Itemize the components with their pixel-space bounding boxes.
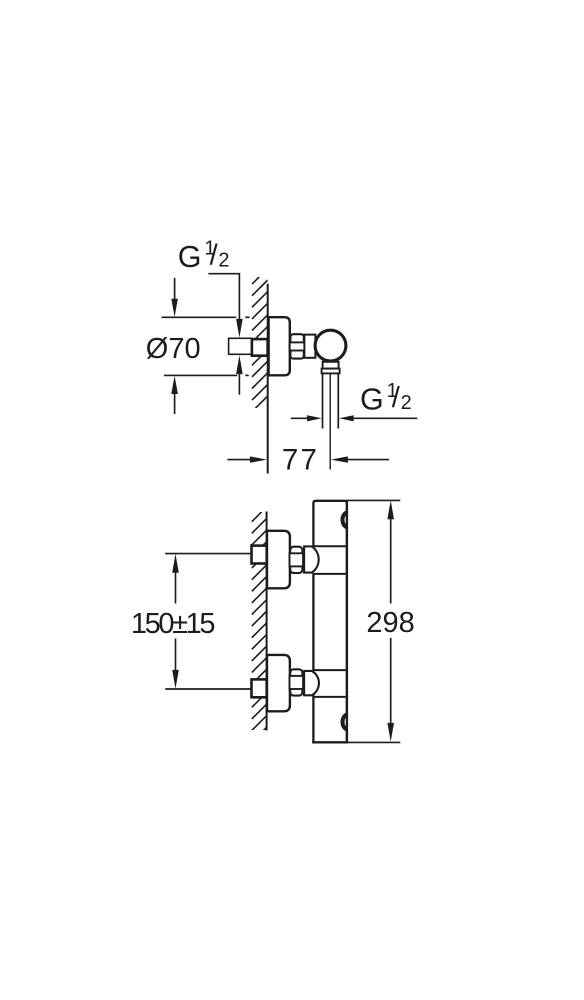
escutcheon bottom (front): [267, 655, 290, 711]
escutcheon (top view): [269, 317, 290, 375]
wall face line (front view): [266, 512, 268, 731]
svg-text:G: G: [360, 383, 384, 417]
supply pipe stub behind wall: [229, 338, 252, 354]
dome bottom (front): [304, 671, 319, 695]
extension line Ø70 bottom: [164, 374, 237, 376]
svg-text:/: /: [392, 382, 401, 414]
collar ring upper: [323, 362, 339, 369]
wall hatch (front view): [252, 506, 268, 742]
connector body (top view): [304, 335, 315, 358]
svg-text:2: 2: [218, 250, 229, 272]
hex nut top (front): [290, 547, 302, 573]
hex nut (top view): [290, 334, 303, 358]
boss line bottom upper: [313, 669, 345, 671]
label G 1/2 (pipe): [360, 380, 412, 416]
hex nut bottom (front): [290, 669, 302, 695]
handle bottom: [343, 714, 349, 729]
thermostat body: [313, 501, 347, 743]
reference line 150 bottom: [165, 688, 251, 690]
dimension 77: [227, 459, 251, 461]
shower pipe: [322, 374, 324, 429]
collar ring lower: [322, 369, 340, 374]
svg-text:298: 298: [366, 607, 414, 639]
body bottom edge: [312, 741, 348, 743]
label G 1/2 (top): [178, 238, 230, 274]
wall face line (top view): [267, 284, 269, 474]
boss line bottom lower: [313, 696, 345, 698]
arrow Ø70 top: [174, 278, 176, 300]
union nut bottom (front): [252, 679, 267, 697]
body right edge: [346, 500, 348, 742]
handle top: [343, 512, 349, 527]
arrow Ø70 bottom: [171, 376, 178, 394]
escutcheon top (front): [267, 531, 290, 589]
dimension G 1/2 pipe: [291, 417, 309, 419]
svg-text:77: 77: [282, 443, 319, 476]
extension line Ø70 top: [162, 316, 237, 318]
svg-text:2: 2: [401, 392, 412, 414]
arrow G 1/2 lower: [236, 355, 243, 374]
union nut top (front): [252, 546, 267, 564]
dome top (front): [304, 546, 319, 572]
wall hatch (top view): [252, 268, 268, 411]
boss line top upper: [313, 545, 345, 547]
svg-text:G: G: [178, 240, 202, 274]
union nut behind wall (top view): [252, 339, 268, 356]
extension line 298 top: [346, 499, 400, 501]
reference line 150 top: [165, 553, 251, 555]
svg-text:/: /: [210, 240, 219, 272]
svg-text:Ø70: Ø70: [146, 333, 201, 365]
dimension 150±15: [172, 554, 179, 573]
outlet elbow circle: [315, 330, 346, 361]
svg-text:150±15: 150±15: [131, 608, 214, 640]
boss line top lower: [313, 573, 345, 575]
leader G 1/2 (top): [208, 274, 239, 320]
extension line 298 bottom: [348, 741, 400, 743]
dimension 298: [387, 500, 394, 519]
